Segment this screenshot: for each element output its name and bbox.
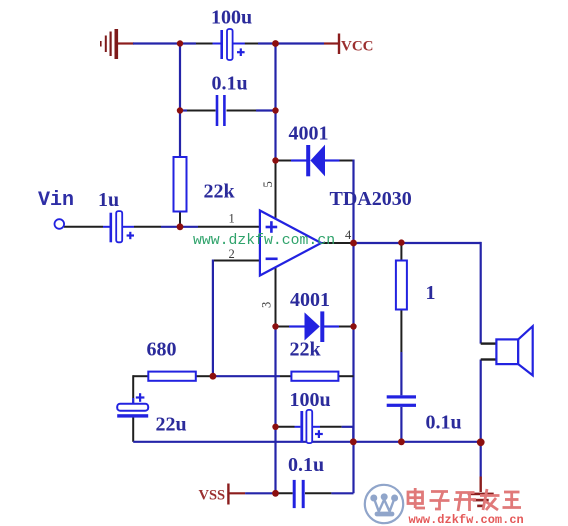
value label 22k for R3	[290, 339, 322, 361]
capacitor C2 0.1u (top)	[217, 95, 224, 126]
svg-text:0.1u: 0.1u	[288, 454, 324, 476]
logo circle W	[365, 485, 403, 523]
svg-text:2: 2	[229, 247, 235, 261]
svg-text:www.dzkfw.com.cn: www.dzkfw.com.cn	[409, 513, 524, 526]
watermark CJK char zi	[430, 492, 450, 510]
wire 22u bottom lead	[132, 417, 134, 441]
svg-text:0.1u: 0.1u	[426, 412, 462, 434]
wire R1 bottom lead (black)	[179, 212, 181, 228]
value label 0.1u for C7	[426, 412, 462, 434]
node junction (353.3,441.8)	[350, 438, 357, 445]
pin number 5 (rotated)	[261, 181, 275, 187]
wire R3 left lead (black)	[280, 375, 292, 377]
wire pin3 lead (black)	[275, 268, 277, 327]
node junction (180,226.8)	[177, 223, 184, 230]
wire VSS stub (dark red)	[229, 492, 245, 494]
value label 0.1u for C2	[212, 73, 248, 95]
node junction (401.4,441.8)	[398, 438, 405, 445]
value label 680 for R2	[147, 339, 177, 361]
svg-text:100u: 100u	[290, 389, 331, 411]
watermark green url	[193, 233, 335, 249]
svg-text:TDA2030: TDA2030	[330, 188, 412, 210]
part label TDA2030 for U1	[330, 188, 412, 210]
ground GND2 (bottom right, dark red earth)	[468, 493, 494, 508]
node junction (275.5,160.5)	[272, 157, 278, 163]
capacitor C7 0.1u (right, horizontal plates)	[387, 395, 416, 407]
power VSS tick	[227, 484, 229, 505]
value label 22u for C4	[156, 414, 187, 436]
value label 0.1u for C6	[288, 454, 324, 476]
resistor R4 1 (vertical)	[396, 261, 407, 310]
watermark CJK char dian	[408, 488, 425, 508]
capacitor C6 0.1u (bottom)	[294, 480, 303, 508]
watermark CJK char kai	[454, 493, 476, 512]
wire D1 left lead	[276, 160, 292, 162]
node junction (401.4,242.6)	[398, 239, 404, 245]
svg-text:5: 5	[261, 181, 275, 187]
resistor R1 22k (vertical)	[174, 157, 187, 212]
wire C5 left lead (black)	[276, 426, 301, 428]
wire column x=275.5 top (VCC rail to 0.1u)	[274, 44, 276, 111]
svg-text:22k: 22k	[204, 181, 236, 203]
value label 4001 for D2	[290, 289, 330, 311]
wire pin1 input lead	[180, 226, 261, 228]
pin number 3 (rotated)	[260, 302, 274, 308]
wire column x=275.5 lower	[274, 327, 276, 494]
pin number 2	[229, 247, 235, 261]
value label 4001 for D1	[289, 123, 329, 145]
wire pin2 lead and feedback drop	[213, 260, 261, 377]
svg-text:4001: 4001	[290, 289, 330, 311]
wire C1 to junction (black then blue)	[245, 43, 277, 45]
value label 100u for C5	[290, 389, 331, 411]
wire C3 to junction	[134, 226, 180, 228]
wire left column x=180	[179, 44, 181, 159]
node junction (180,110.5)	[177, 107, 183, 113]
node junction (480.7,442.3)	[477, 438, 485, 446]
svg-text:1: 1	[229, 212, 235, 226]
wire speaker column lower	[480, 360, 482, 477]
resistor R3 22k (horizontal)	[291, 372, 338, 381]
net label VCC	[341, 38, 374, 54]
ground GND1 stub wire (dark red)	[118, 42, 134, 44]
wire row2 0.1u right lead	[227, 110, 276, 112]
watermark red url	[409, 513, 524, 526]
value label 100u for C1	[211, 7, 252, 29]
node junction pin4 (353.5,243)	[350, 240, 357, 247]
node junction (353.5,326.5)	[350, 323, 356, 329]
wire VSS to junction	[245, 492, 275, 494]
capacitor C4 22u polarized (vertical)	[117, 393, 148, 417]
wire 680 right lead	[196, 375, 280, 377]
wire bottom rail	[133, 441, 481, 443]
svg-text:22k: 22k	[290, 339, 322, 361]
capacitor C1 100u polarized (top)	[213, 29, 245, 60]
svg-text:100u: 100u	[211, 7, 252, 29]
watermark CJK char fa	[480, 489, 500, 510]
node junction (212.9,376.2)	[210, 373, 217, 380]
wire pin4 output lead (black)	[321, 242, 354, 244]
wire pin5 lead (black)	[275, 161, 277, 220]
watermark CJK char wang	[503, 492, 522, 508]
wire D2 left lead	[276, 326, 290, 328]
wire row2 0.1u left lead	[180, 109, 216, 111]
wire R3 right lead (black)	[339, 375, 354, 377]
speaker LS1	[496, 326, 532, 375]
wire C6 right lead	[305, 492, 354, 494]
op-amp U1 TDA2030 (triangle)	[260, 211, 321, 276]
power VCC tick	[338, 34, 340, 55]
wire C7 bottom lead	[400, 407, 402, 442]
node junction (275.5,426.8)	[272, 424, 278, 430]
capacitor C5 100u polarized (bottom)	[302, 410, 323, 443]
net label Vin	[38, 189, 74, 212]
wire column x=275.5 upper	[274, 111, 276, 161]
node junction (275.5,43.5)	[272, 40, 279, 47]
wire lead to C1 (black)	[196, 43, 213, 45]
wire column x=353.5	[352, 160, 354, 494]
svg-text:22u: 22u	[156, 414, 187, 436]
node junction (180,43.5)	[177, 40, 183, 46]
pin number 4	[345, 228, 352, 242]
value label 1 for R4	[426, 282, 436, 304]
wire D1 right lead	[339, 160, 355, 162]
svg-text:4001: 4001	[289, 123, 329, 145]
pin number 1	[229, 212, 235, 226]
terminal Vin (open circle)	[55, 219, 65, 229]
wire C5 right lead with corner	[312, 427, 353, 442]
svg-text:VSS: VSS	[199, 488, 226, 504]
wire Vin terminal to C3	[64, 226, 103, 228]
capacitor C3 1u polarized (input)	[103, 211, 134, 242]
wire junction to VCC (blue then dark red)	[276, 42, 339, 44]
diode D1 4001 (points left)	[291, 145, 340, 177]
svg-text:3: 3	[260, 302, 274, 308]
wire output rail to speaker	[354, 242, 481, 244]
resistor R2 680 (horizontal)	[148, 372, 196, 381]
wire speaker stubs (black)	[481, 344, 497, 360]
net label VSS	[199, 488, 226, 504]
wire top rail left segment	[133, 42, 196, 44]
node junction (275.5,326.5)	[272, 323, 278, 329]
wire 680 left corner (black)	[133, 375, 148, 404]
svg-text:4: 4	[345, 228, 352, 242]
wire to bottom ground (dark red)	[480, 477, 482, 493]
wire R4 top lead (black)	[400, 243, 402, 261]
diode D2 4001 (points right)	[289, 311, 339, 342]
svg-text:Vin: Vin	[38, 189, 74, 212]
svg-text:1u: 1u	[98, 189, 119, 211]
value label 22k for R1	[204, 181, 236, 203]
svg-text:www.dzkfw.com.cn: www.dzkfw.com.cn	[193, 233, 335, 249]
value label 1u for C3	[98, 189, 119, 211]
ground GND1 (top-left, dark red earth)	[101, 29, 117, 59]
wire R4 to C7	[400, 310, 402, 396]
wire D2 right lead	[339, 326, 354, 328]
node junction (275.5,110.5)	[272, 107, 278, 113]
svg-text:0.1u: 0.1u	[212, 73, 248, 95]
wire C6 left lead (black)	[276, 492, 293, 494]
svg-text:1: 1	[426, 282, 436, 304]
wire speaker column upper	[480, 242, 482, 344]
svg-text:VCC: VCC	[341, 38, 374, 54]
node junction VSS (275.5,493.3)	[272, 490, 279, 497]
svg-text:680: 680	[147, 339, 177, 361]
